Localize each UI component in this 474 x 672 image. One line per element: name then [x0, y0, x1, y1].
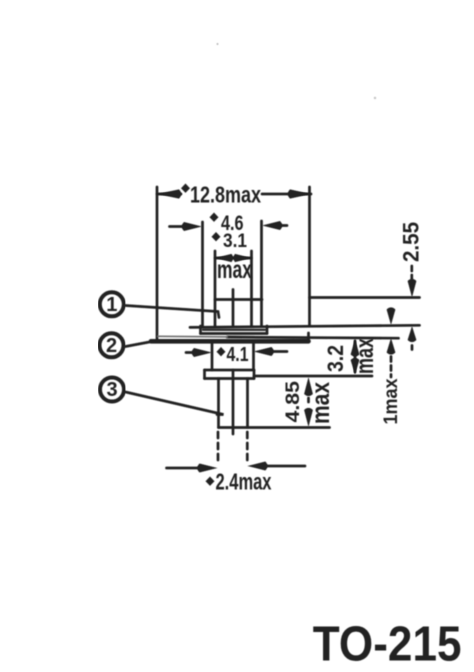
svg-text:3.1: 3.1: [223, 230, 247, 252]
svg-text:max: max: [307, 382, 335, 424]
svg-text:max: max: [351, 338, 379, 374]
svg-text:max: max: [217, 256, 252, 284]
svg-text:2.4max: 2.4max: [216, 469, 272, 495]
svg-text:12.8max: 12.8max: [190, 182, 261, 208]
svg-text:4.1: 4.1: [227, 344, 249, 366]
svg-text:3.2: 3.2: [323, 345, 348, 372]
svg-text:TO-215: TO-215: [313, 617, 462, 672]
svg-text:3: 3: [106, 379, 117, 401]
svg-text:1max: 1max: [380, 378, 402, 424]
svg-text:2.55: 2.55: [399, 222, 424, 262]
svg-text:1: 1: [106, 294, 117, 316]
svg-text:2: 2: [106, 335, 117, 357]
svg-text:4.85: 4.85: [282, 381, 304, 423]
